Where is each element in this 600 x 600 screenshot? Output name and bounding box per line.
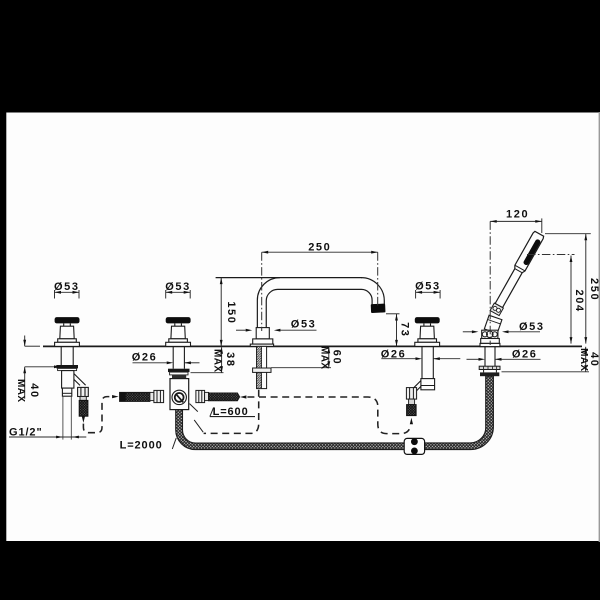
- svg-text:Ø53: Ø53: [415, 280, 441, 292]
- svg-text:150: 150: [225, 301, 237, 324]
- svg-text:MAX: MAX: [15, 379, 26, 402]
- svg-text:120: 120: [506, 209, 529, 221]
- svg-text:MAX: MAX: [319, 346, 330, 369]
- svg-text:38: 38: [224, 352, 236, 367]
- svg-text:250: 250: [588, 278, 600, 301]
- svg-text:Ø53: Ø53: [519, 321, 545, 333]
- svg-text:MAX: MAX: [578, 348, 589, 371]
- svg-text:60: 60: [330, 350, 342, 365]
- svg-text:Ø53: Ø53: [165, 281, 191, 293]
- svg-text:G1/2": G1/2": [9, 427, 43, 439]
- svg-text:Ø53: Ø53: [291, 318, 317, 330]
- svg-text:40: 40: [28, 383, 40, 398]
- svg-text:MAX: MAX: [211, 349, 222, 372]
- svg-text:Ø26: Ø26: [381, 348, 407, 360]
- svg-text:250: 250: [308, 241, 331, 253]
- svg-text:204: 204: [573, 290, 585, 313]
- svg-text:Ø26: Ø26: [132, 352, 158, 364]
- svg-text:73: 73: [399, 322, 411, 337]
- svg-text:Ø53: Ø53: [54, 281, 80, 293]
- svg-text:L=2000: L=2000: [120, 440, 163, 452]
- svg-text:Ø26: Ø26: [512, 349, 538, 361]
